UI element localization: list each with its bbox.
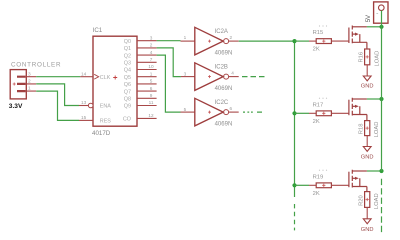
connector J1 CONTROLLER xyxy=(10,70,36,99)
svg-text:R20: R20 xyxy=(358,195,364,206)
resistor R18 LOAD xyxy=(365,121,370,147)
junction node at R17 xyxy=(292,111,296,115)
svg-text:CONTROLLER: CONTROLLER xyxy=(11,62,61,69)
output pin stubs Q0-Q9 and CO xyxy=(137,41,157,119)
svg-text:12: 12 xyxy=(148,113,154,118)
inverter IC2B xyxy=(181,63,239,91)
svg-text:IC2A: IC2A xyxy=(215,29,228,35)
svg-text:Q4: Q4 xyxy=(124,68,131,74)
wire rail to R15 xyxy=(295,40,310,42)
junction node at R15 xyxy=(292,39,296,43)
svg-text:4069N: 4069N xyxy=(215,86,233,92)
svg-text:4: 4 xyxy=(231,70,234,75)
svg-text:5: 5 xyxy=(184,107,187,112)
svg-text:CO: CO xyxy=(123,117,131,123)
wire net Q2 to IC2C input xyxy=(157,55,181,112)
svg-text:2K: 2K xyxy=(313,119,320,125)
svg-text:Q7: Q7 xyxy=(124,89,131,95)
svg-text:2: 2 xyxy=(28,79,31,85)
wire net Q1 to IC2B input xyxy=(157,48,181,77)
svg-text:Q3: Q3 xyxy=(124,61,131,67)
svg-text:Q1: Q1 xyxy=(124,46,131,52)
transistor Q2 p-mosfet xyxy=(349,98,367,121)
svg-text:6: 6 xyxy=(230,106,233,111)
resistor R17 2K xyxy=(309,111,349,116)
svg-text:Q2: Q2 xyxy=(124,53,131,59)
svg-text:R19: R19 xyxy=(313,174,324,180)
svg-text:2K: 2K xyxy=(313,47,320,53)
svg-text:GND: GND xyxy=(361,84,374,90)
svg-text:4: 4 xyxy=(150,50,153,55)
pin names Q0..Q9, CO xyxy=(123,39,131,123)
svg-text:3.3V: 3.3V xyxy=(9,103,23,110)
svg-text:3: 3 xyxy=(184,71,187,76)
resistor R16 LOAD xyxy=(365,49,370,76)
svg-text:5V: 5V xyxy=(366,15,372,22)
svg-text:Q8: Q8 xyxy=(124,97,131,103)
decor dots above R15 xyxy=(319,25,320,26)
wire dashed continuation of left rail xyxy=(294,204,296,230)
svg-text:R17: R17 xyxy=(313,102,324,108)
ground GND under R16 xyxy=(363,76,371,81)
pin ENA (13) stub with bubble xyxy=(79,105,88,107)
svg-text:R15: R15 xyxy=(313,30,324,36)
svg-text:7: 7 xyxy=(150,57,153,62)
wire net Q0 to IC2A input xyxy=(157,40,181,42)
svg-text:2: 2 xyxy=(150,43,153,48)
svg-text:2: 2 xyxy=(230,35,233,40)
resistor R20 LOAD xyxy=(365,192,370,219)
svg-text:1: 1 xyxy=(150,71,153,76)
decor dots above R19 xyxy=(319,170,320,171)
ground GND under R20 xyxy=(363,219,371,224)
svg-text:14: 14 xyxy=(81,71,87,76)
wire vertical rail left (gate bus) xyxy=(294,41,296,197)
svg-text:Q5: Q5 xyxy=(124,75,131,81)
IC U1 4017D body xyxy=(93,36,137,126)
wire dashed continuation of 5V rail xyxy=(381,179,383,232)
svg-text:10: 10 xyxy=(148,64,154,69)
wire rail to R19 xyxy=(295,184,310,186)
svg-text:6: 6 xyxy=(150,86,153,91)
wire net IC2A output to rail xyxy=(239,40,295,42)
wire Q1 source to 5V rail xyxy=(367,26,382,28)
svg-text:GND: GND xyxy=(361,154,374,160)
svg-text:5: 5 xyxy=(150,79,153,84)
pin RES (15) stub xyxy=(79,119,93,121)
svg-text:R16: R16 xyxy=(358,52,364,63)
wire dash-dot IC2C output xyxy=(243,111,262,113)
svg-text:Q0: Q0 xyxy=(124,39,131,45)
transistor Q1 p-mosfet xyxy=(349,26,367,50)
svg-text:CLK: CLK xyxy=(100,75,111,81)
svg-text:9: 9 xyxy=(150,93,153,98)
svg-text:IC2B: IC2B xyxy=(215,65,228,71)
junction node source Q3 xyxy=(379,169,383,173)
wire rail to R17 xyxy=(295,112,310,114)
junction node source Q1 xyxy=(379,25,383,29)
svg-text:IC2C: IC2C xyxy=(215,100,229,106)
resistor R15 2K xyxy=(309,39,349,44)
svg-text:IC1: IC1 xyxy=(93,27,103,34)
wire dashed IC2B output xyxy=(242,76,265,78)
junction node source Q2 xyxy=(379,97,383,101)
pin CLK clock mark xyxy=(94,74,99,79)
svg-text:LOAD: LOAD xyxy=(374,51,380,67)
resistor R19 2K xyxy=(309,183,349,188)
wire net pin2 to ENA xyxy=(36,84,79,106)
svg-text:Q6: Q6 xyxy=(124,82,131,88)
junction node at R19 xyxy=(292,183,296,187)
svg-text:Q9: Q9 xyxy=(124,104,131,110)
wire 5V rail xyxy=(381,11,383,172)
svg-text:3: 3 xyxy=(150,35,153,40)
supply 5V symbol xyxy=(374,2,388,23)
svg-text:3: 3 xyxy=(28,71,31,77)
decor dots above R17 xyxy=(319,98,320,99)
svg-text:LOAD: LOAD xyxy=(374,122,380,138)
svg-text:1: 1 xyxy=(28,86,31,92)
svg-text:15: 15 xyxy=(81,115,87,120)
wire Q2 source to 5V rail xyxy=(367,98,382,100)
op-amp style inverter IC2A xyxy=(181,27,239,55)
svg-text:2K: 2K xyxy=(313,191,320,197)
wire net pin1 to RES xyxy=(36,91,79,120)
transistor Q3 p-mosfet xyxy=(349,170,367,192)
inverter IC2C xyxy=(181,98,239,126)
right pin numbers xyxy=(148,35,154,118)
wire net pin3 to CLK xyxy=(36,76,80,78)
svg-text:LOAD: LOAD xyxy=(374,193,380,209)
svg-text:RES: RES xyxy=(100,119,111,125)
decor tick inside 5V box xyxy=(376,13,378,15)
IC1 origin cross xyxy=(113,76,117,80)
ground GND under R18 xyxy=(363,147,371,152)
svg-text:11: 11 xyxy=(149,100,154,105)
svg-text:4069N: 4069N xyxy=(215,121,233,127)
svg-text:4017D: 4017D xyxy=(92,130,111,137)
svg-text:1: 1 xyxy=(184,35,187,40)
svg-text:ENA: ENA xyxy=(100,104,111,110)
svg-text:R18: R18 xyxy=(358,124,364,135)
wire Q3 source to 5V rail xyxy=(367,170,382,172)
pin CLK (14) stub xyxy=(80,76,93,78)
svg-text:13: 13 xyxy=(81,100,87,105)
svg-text:4069N: 4069N xyxy=(215,50,233,56)
svg-text:GND: GND xyxy=(361,227,374,233)
